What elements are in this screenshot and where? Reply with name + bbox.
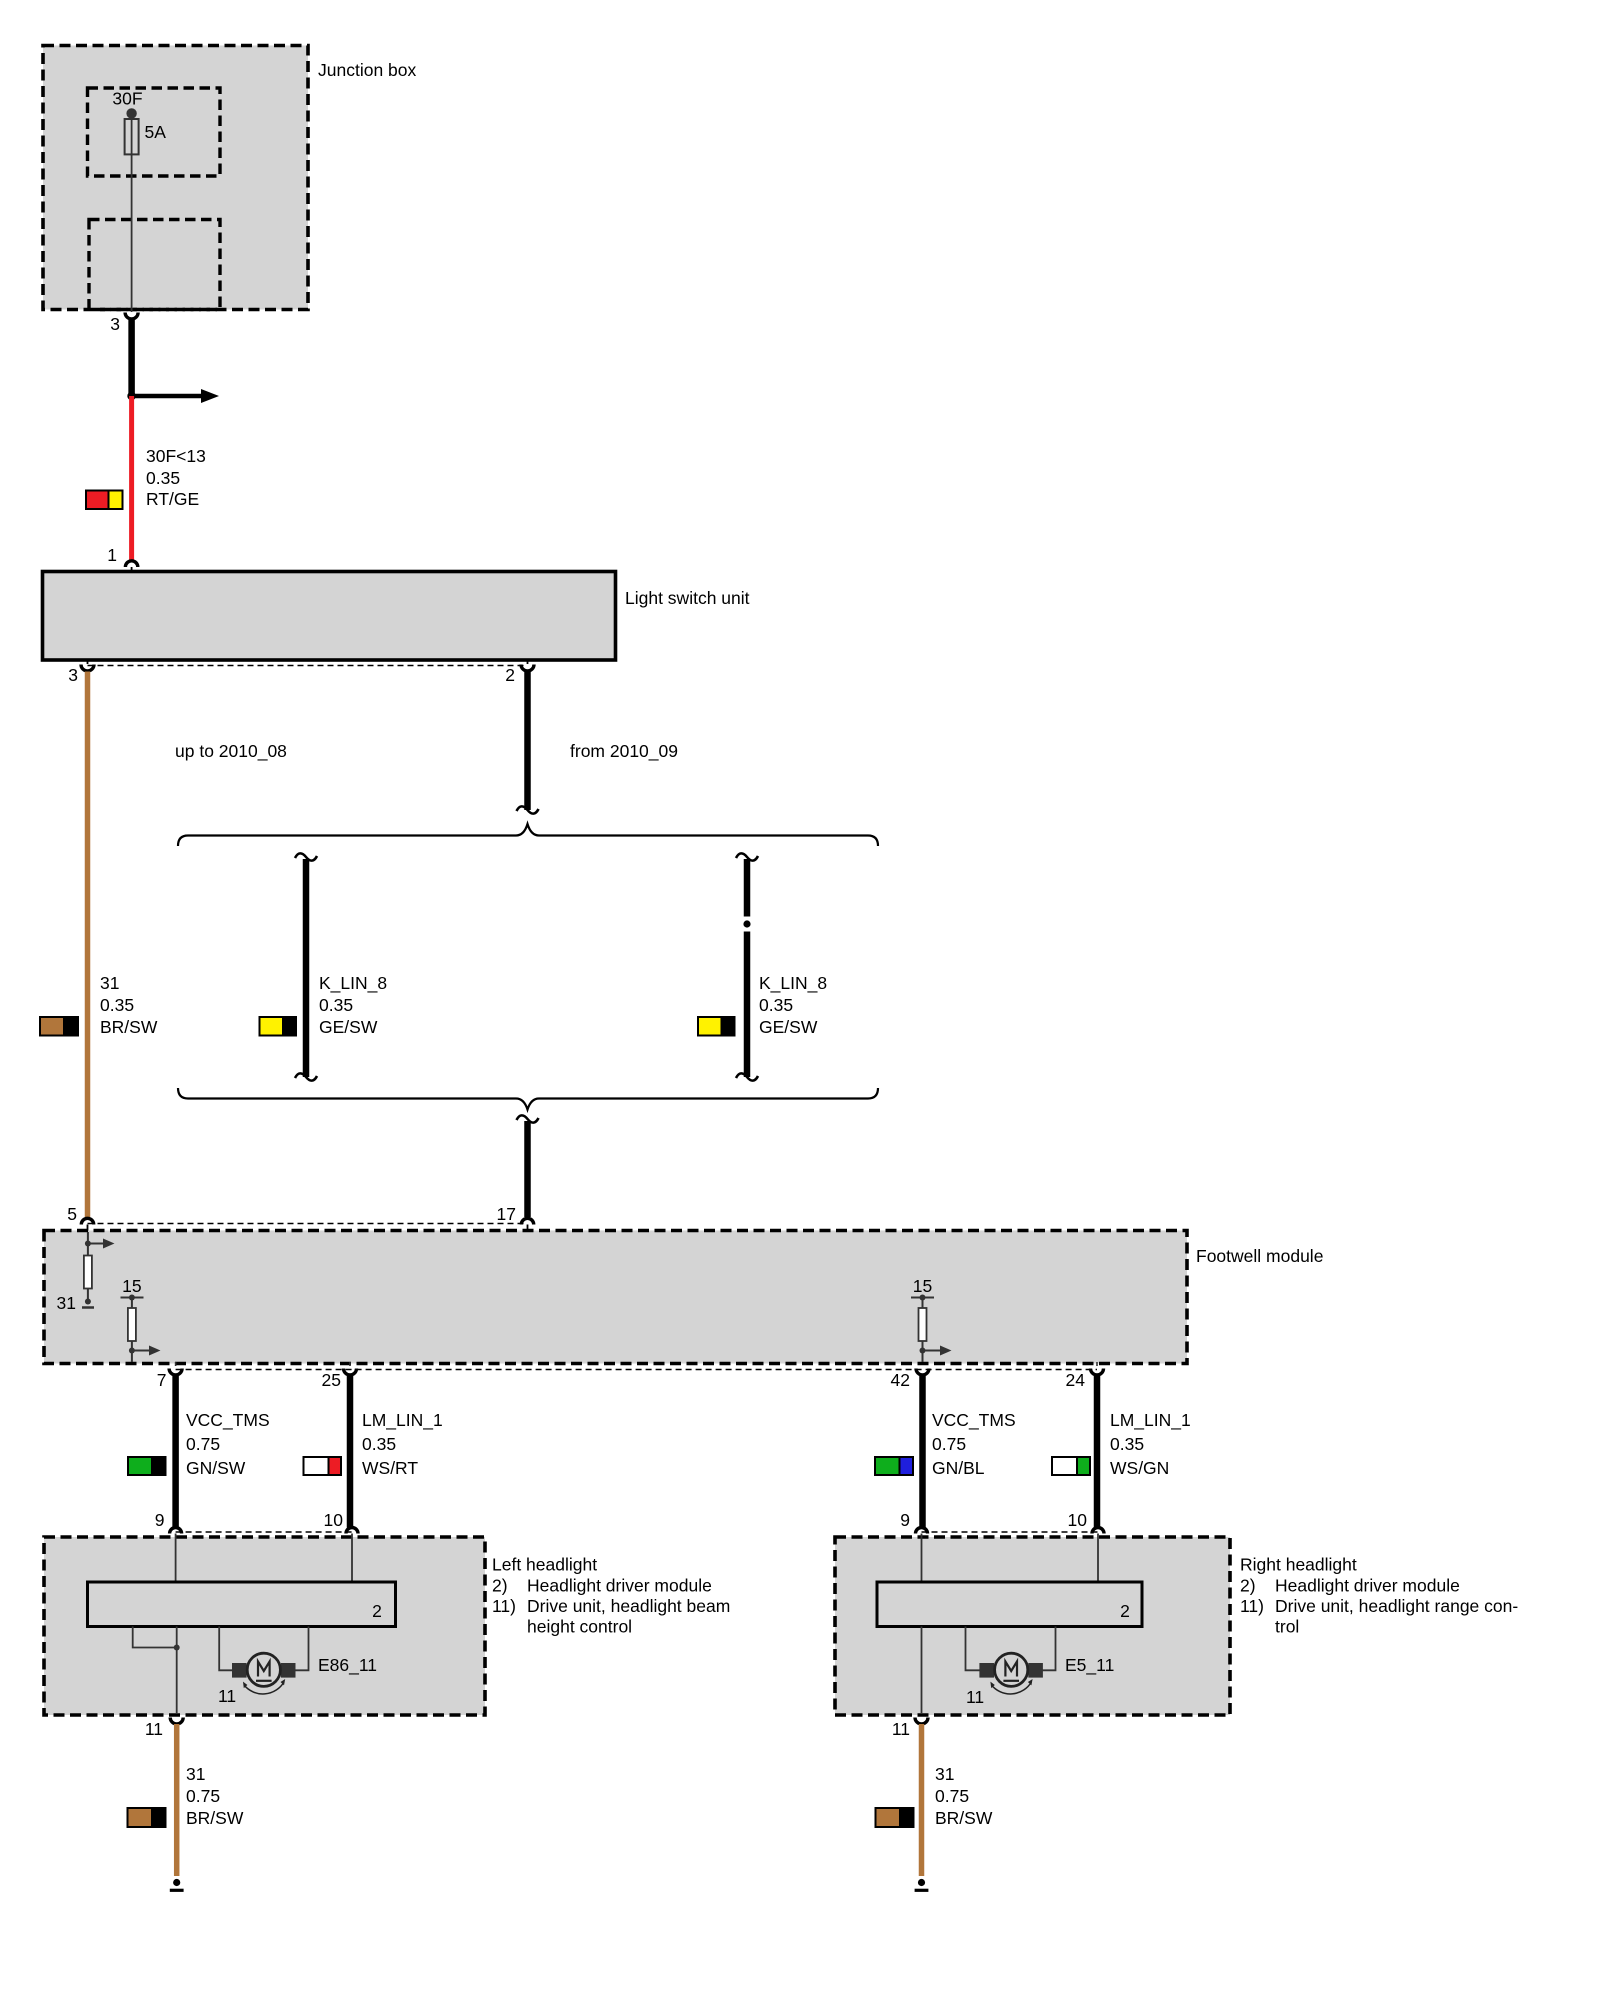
wire (driver module to node, left headlight) bbox=[133, 1627, 177, 1648]
connector inner box bbox=[89, 220, 220, 310]
svg-text:31: 31 bbox=[186, 1764, 205, 1784]
svg-text:11: 11 bbox=[145, 1719, 163, 1739]
svg-text:15: 15 bbox=[913, 1276, 932, 1296]
color code RT/GE bbox=[86, 491, 123, 510]
svg-text:0.35: 0.35 bbox=[100, 995, 134, 1015]
color code BR/SW (right bottom) bbox=[876, 1808, 914, 1827]
wire LM_LIN_1 WS/RT bbox=[347, 1376, 354, 1528]
pin 7 (footwell module) bbox=[157, 1369, 182, 1391]
svg-text:0.35: 0.35 bbox=[146, 468, 180, 488]
svg-text:11): 11) bbox=[492, 1596, 516, 1616]
wire (driver module to motor left terminal, right) bbox=[966, 1627, 981, 1671]
wire (driver module to motor right terminal, right) bbox=[1043, 1627, 1056, 1671]
label wire 30F<13 bbox=[146, 446, 206, 509]
pin 10 (right headlight) bbox=[1068, 1510, 1104, 1534]
svg-text:31: 31 bbox=[57, 1293, 76, 1313]
right headlight box bbox=[835, 1537, 1230, 1715]
svg-text:WS/RT: WS/RT bbox=[362, 1458, 418, 1478]
svg-text:25: 25 bbox=[322, 1370, 341, 1390]
svg-text:0.75: 0.75 bbox=[186, 1786, 220, 1806]
wire 31 BR/SW (left headlight to ground) bbox=[174, 1724, 180, 1876]
svg-text:Footwell module: Footwell module bbox=[1196, 1246, 1323, 1266]
headlight driver module 2 (left) bbox=[88, 1582, 396, 1627]
ground (right) bbox=[915, 1879, 929, 1890]
svg-text:0.35: 0.35 bbox=[319, 995, 353, 1015]
svg-text:0.75: 0.75 bbox=[932, 1434, 966, 1454]
svg-text:31: 31 bbox=[100, 973, 119, 993]
pin 24 stub bbox=[1096, 1362, 1098, 1366]
fuse 30F 5A bbox=[112, 89, 166, 155]
terminal 15 branch (left, inside footwell module) bbox=[121, 1276, 161, 1362]
wire (driver module to pin 11, left headlight) bbox=[176, 1627, 178, 1715]
svg-text:0.35: 0.35 bbox=[1110, 1434, 1144, 1454]
label K_LIN_8 (right) bbox=[759, 973, 827, 1037]
label VCC_TMS (left) bbox=[186, 1410, 270, 1478]
junction node bbox=[127, 392, 136, 401]
pin 2 (light switch unit) bbox=[505, 660, 534, 685]
svg-text:2: 2 bbox=[1120, 1601, 1130, 1621]
wire (brace to pin 17) bbox=[517, 1115, 539, 1217]
pin 7 stub bbox=[175, 1362, 177, 1366]
svg-text:K_LIN_8: K_LIN_8 bbox=[759, 973, 827, 994]
svg-text:VCC_TMS: VCC_TMS bbox=[932, 1410, 1016, 1431]
svg-text:5A: 5A bbox=[145, 122, 167, 142]
pin 25 stub bbox=[349, 1362, 351, 1366]
svg-text:11: 11 bbox=[218, 1686, 236, 1706]
svg-text:BR/SW: BR/SW bbox=[935, 1808, 993, 1828]
svg-text:9: 9 bbox=[900, 1510, 910, 1530]
svg-text:Drive unit, headlight range co: Drive unit, headlight range con- bbox=[1275, 1596, 1518, 1616]
svg-text:E5_11: E5_11 bbox=[1065, 1655, 1114, 1676]
svg-text:LM_LIN_1: LM_LIN_1 bbox=[1110, 1410, 1191, 1431]
pin 3 (light switch unit) bbox=[68, 660, 94, 685]
brace (bottom) bbox=[178, 1088, 878, 1110]
svg-text:from 2010_09: from 2010_09 bbox=[570, 741, 678, 762]
label left headlight bbox=[492, 1555, 730, 1637]
wire 31 BR/SW (light switch to footwell) bbox=[85, 672, 91, 1218]
svg-text:Headlight driver module: Headlight driver module bbox=[1275, 1576, 1460, 1596]
svg-text:2: 2 bbox=[372, 1601, 382, 1621]
svg-text:11): 11) bbox=[1240, 1596, 1264, 1616]
svg-text:0.35: 0.35 bbox=[759, 995, 793, 1015]
connector line (pins 9-10 left) bbox=[176, 1531, 352, 1533]
connector line (pins 5-17) bbox=[88, 1223, 528, 1225]
drive unit motor E86_11 bbox=[218, 1653, 377, 1706]
wire (pin 9 to driver module) bbox=[175, 1534, 177, 1583]
svg-text:Drive unit, headlight beam: Drive unit, headlight beam bbox=[527, 1596, 730, 1616]
svg-text:2): 2) bbox=[1240, 1576, 1256, 1596]
color code GN/SW bbox=[128, 1457, 166, 1475]
svg-text:0.75: 0.75 bbox=[186, 1434, 220, 1454]
svg-text:up to 2010_08: up to 2010_08 bbox=[175, 741, 287, 762]
label 31 BR/SW (left margin) bbox=[100, 973, 158, 1037]
wire K_LIN_8 (left) bbox=[295, 853, 317, 1080]
pin 9 (left headlight) bbox=[155, 1510, 182, 1534]
svg-text:5: 5 bbox=[67, 1204, 77, 1224]
svg-text:Right headlight: Right headlight bbox=[1240, 1555, 1357, 1575]
svg-text:30F: 30F bbox=[112, 89, 142, 109]
svg-text:BR/SW: BR/SW bbox=[186, 1808, 244, 1828]
wire from pin 2 bbox=[524, 672, 531, 811]
color code BR/SW (left margin) bbox=[40, 1017, 78, 1036]
junction box bbox=[43, 46, 417, 310]
pin 11 (left headlight) bbox=[145, 1718, 183, 1740]
ground (left) bbox=[170, 1879, 184, 1890]
arrow (circuit continues) bbox=[132, 389, 219, 403]
pin 42 (footwell module) bbox=[891, 1369, 929, 1391]
svg-text:17: 17 bbox=[497, 1204, 516, 1224]
svg-text:GN/BL: GN/BL bbox=[932, 1458, 985, 1478]
fuse holder inner box bbox=[88, 88, 221, 176]
wire LM_LIN_1 WS/GN bbox=[1094, 1376, 1101, 1528]
label LM_LIN_1 (right) bbox=[1110, 1410, 1191, 1478]
wire (pin 3 down) bbox=[128, 320, 135, 397]
wire 30F&lt;13 RT/GE bbox=[129, 396, 134, 561]
svg-text:31: 31 bbox=[935, 1764, 954, 1784]
terminal 15 branch (right, inside footwell module) bbox=[911, 1276, 952, 1362]
wire (pin 10 to driver module) bbox=[351, 1534, 353, 1583]
svg-text:LM_LIN_1: LM_LIN_1 bbox=[362, 1410, 443, 1431]
wire VCC_TMS GN/BL bbox=[919, 1376, 926, 1528]
svg-text:trol: trol bbox=[1275, 1617, 1299, 1637]
pin 3 (junction box) bbox=[110, 313, 138, 335]
pin 5 (footwell module) bbox=[67, 1204, 93, 1231]
svg-text:7: 7 bbox=[157, 1370, 167, 1390]
label 31 BR/SW (right) bbox=[935, 1764, 993, 1828]
ground branch 31 (inside footwell module) bbox=[57, 1232, 115, 1313]
svg-text:0.75: 0.75 bbox=[935, 1786, 969, 1806]
svg-text:3: 3 bbox=[110, 314, 120, 334]
svg-text:GE/SW: GE/SW bbox=[759, 1017, 818, 1037]
wire (pin 10 to driver module, right) bbox=[1097, 1534, 1099, 1583]
svg-text:42: 42 bbox=[891, 1370, 910, 1390]
wire end curl bbox=[517, 806, 539, 813]
color code GN/BL bbox=[875, 1457, 913, 1475]
svg-text:10: 10 bbox=[1068, 1510, 1088, 1530]
svg-text:24: 24 bbox=[1066, 1370, 1086, 1390]
color code WS/GN bbox=[1052, 1457, 1090, 1475]
footwell module bbox=[44, 1231, 1323, 1364]
pin 17 (footwell module) bbox=[497, 1204, 534, 1231]
drive unit motor E5_11 bbox=[966, 1653, 1114, 1707]
svg-text:10: 10 bbox=[324, 1510, 344, 1530]
svg-text:1: 1 bbox=[107, 545, 117, 565]
wire K_LIN_8 (right) bbox=[736, 853, 758, 1080]
svg-text:height control: height control bbox=[527, 1617, 632, 1637]
pin 9 (right headlight) bbox=[900, 1510, 927, 1534]
wire (pin 9 to driver module, right) bbox=[921, 1534, 923, 1583]
wire (driver module to motor right terminal) bbox=[296, 1627, 309, 1671]
svg-text:30F<13: 30F<13 bbox=[146, 446, 206, 466]
svg-text:2): 2) bbox=[492, 1576, 508, 1596]
wire VCC_TMS GN/SW bbox=[172, 1376, 179, 1528]
color code WS/RT bbox=[304, 1457, 342, 1475]
svg-text:VCC_TMS: VCC_TMS bbox=[186, 1410, 270, 1431]
svg-text:3: 3 bbox=[68, 665, 78, 685]
wire (fuse feed to pin 3) bbox=[131, 113, 133, 312]
svg-text:15: 15 bbox=[122, 1276, 141, 1296]
brace (top) bbox=[178, 824, 878, 846]
svg-text:2: 2 bbox=[505, 665, 515, 685]
color code GE/SW (left) bbox=[260, 1017, 297, 1036]
label K_LIN_8 (left) bbox=[319, 973, 387, 1037]
connector line (pins 3-2) bbox=[88, 665, 528, 667]
svg-text:GN/SW: GN/SW bbox=[186, 1458, 246, 1478]
wire (driver module to pin 11, right headlight) bbox=[921, 1627, 923, 1715]
pin 25 (footwell module) bbox=[322, 1369, 357, 1391]
svg-text:Junction box: Junction box bbox=[318, 60, 417, 80]
node (left headlight) bbox=[174, 1645, 180, 1651]
light switch unit bbox=[43, 572, 750, 661]
label right headlight bbox=[1240, 1555, 1518, 1637]
svg-text:11: 11 bbox=[892, 1719, 910, 1739]
headlight driver module 2 (right) bbox=[877, 1582, 1142, 1627]
svg-text:0.35: 0.35 bbox=[362, 1434, 396, 1454]
label VCC_TMS (right) bbox=[932, 1410, 1016, 1478]
svg-text:RT/GE: RT/GE bbox=[146, 489, 199, 509]
color code GE/SW (right) bbox=[698, 1017, 735, 1036]
svg-text:11: 11 bbox=[966, 1687, 984, 1707]
svg-text:Left headlight: Left headlight bbox=[492, 1555, 597, 1575]
svg-text:Headlight driver module: Headlight driver module bbox=[527, 1576, 712, 1596]
label 31 BR/SW (left) bbox=[186, 1764, 244, 1828]
label LM_LIN_1 (left) bbox=[362, 1410, 443, 1478]
svg-text:K_LIN_8: K_LIN_8 bbox=[319, 973, 387, 994]
pin 11 (right headlight) bbox=[892, 1718, 928, 1740]
color code BR/SW (left bottom) bbox=[128, 1808, 166, 1827]
pin 10 (left headlight) bbox=[324, 1510, 358, 1534]
wire (driver module to motor left terminal) bbox=[219, 1627, 232, 1671]
svg-text:Light switch unit: Light switch unit bbox=[625, 588, 750, 608]
pin 24 (footwell module) bbox=[1066, 1369, 1104, 1391]
connector line (pins 9-10 right) bbox=[922, 1531, 1099, 1533]
wire 31 BR/SW (right headlight to ground) bbox=[919, 1724, 925, 1876]
svg-text:E86_11: E86_11 bbox=[318, 1655, 377, 1676]
connector line (pins 7-25-42-24) bbox=[176, 1369, 1097, 1371]
svg-text:9: 9 bbox=[155, 1510, 165, 1530]
svg-text:WS/GN: WS/GN bbox=[1110, 1458, 1169, 1478]
svg-text:BR/SW: BR/SW bbox=[100, 1017, 158, 1037]
left headlight box bbox=[44, 1537, 485, 1715]
svg-text:GE/SW: GE/SW bbox=[319, 1017, 378, 1037]
pin 1 (light switch unit) bbox=[107, 545, 138, 572]
